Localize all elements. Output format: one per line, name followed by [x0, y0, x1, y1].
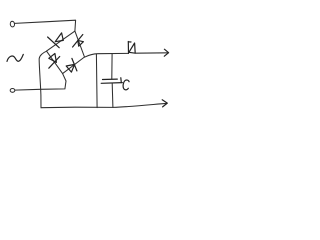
wire: bottom rail [41, 106, 113, 109]
label C (capacitor value) [123, 80, 129, 90]
wire: bridge edge bottom-left [47, 51, 63, 74]
capacitor C bottom plate [101, 82, 122, 85]
wire + arrow: positive output [135, 49, 168, 56]
capacitor C top lead [111, 54, 113, 80]
wire: bridge edge bottom-right [63, 57, 85, 74]
wire: bridge right corner to series diode [85, 53, 128, 57]
wire: bridge edge top-left [47, 31, 75, 51]
diode D3 (bridge, bottom-left arm) [49, 54, 60, 69]
capacitor C top plate [103, 78, 118, 80]
wire: bottom terminal to bridge bottom corner [15, 74, 66, 90]
wire: vertical return (top rail to bottom rail) [95, 54, 98, 108]
diode D2 (bridge, top-right arm) [73, 35, 84, 48]
diode D4 (bridge, bottom-right arm) [66, 58, 77, 72]
terminal: AC input bottom [10, 89, 15, 93]
diode D5 (series output diode) [128, 42, 135, 54]
terminal: AC input top [10, 21, 15, 27]
wire: top terminal to bridge top corner [15, 20, 76, 31]
wire: bridge left corner down to bottom rail [39, 51, 46, 107]
capacitor C plate end hook [120, 78, 123, 83]
capacitor C bottom lead [111, 83, 114, 107]
AC source symbol (sine tilde) [7, 54, 23, 61]
wire: bridge edge top-right [75, 31, 85, 57]
diode D1 (bridge, top-left arm) [48, 33, 64, 48]
wire + arrow: negative output [113, 100, 167, 108]
